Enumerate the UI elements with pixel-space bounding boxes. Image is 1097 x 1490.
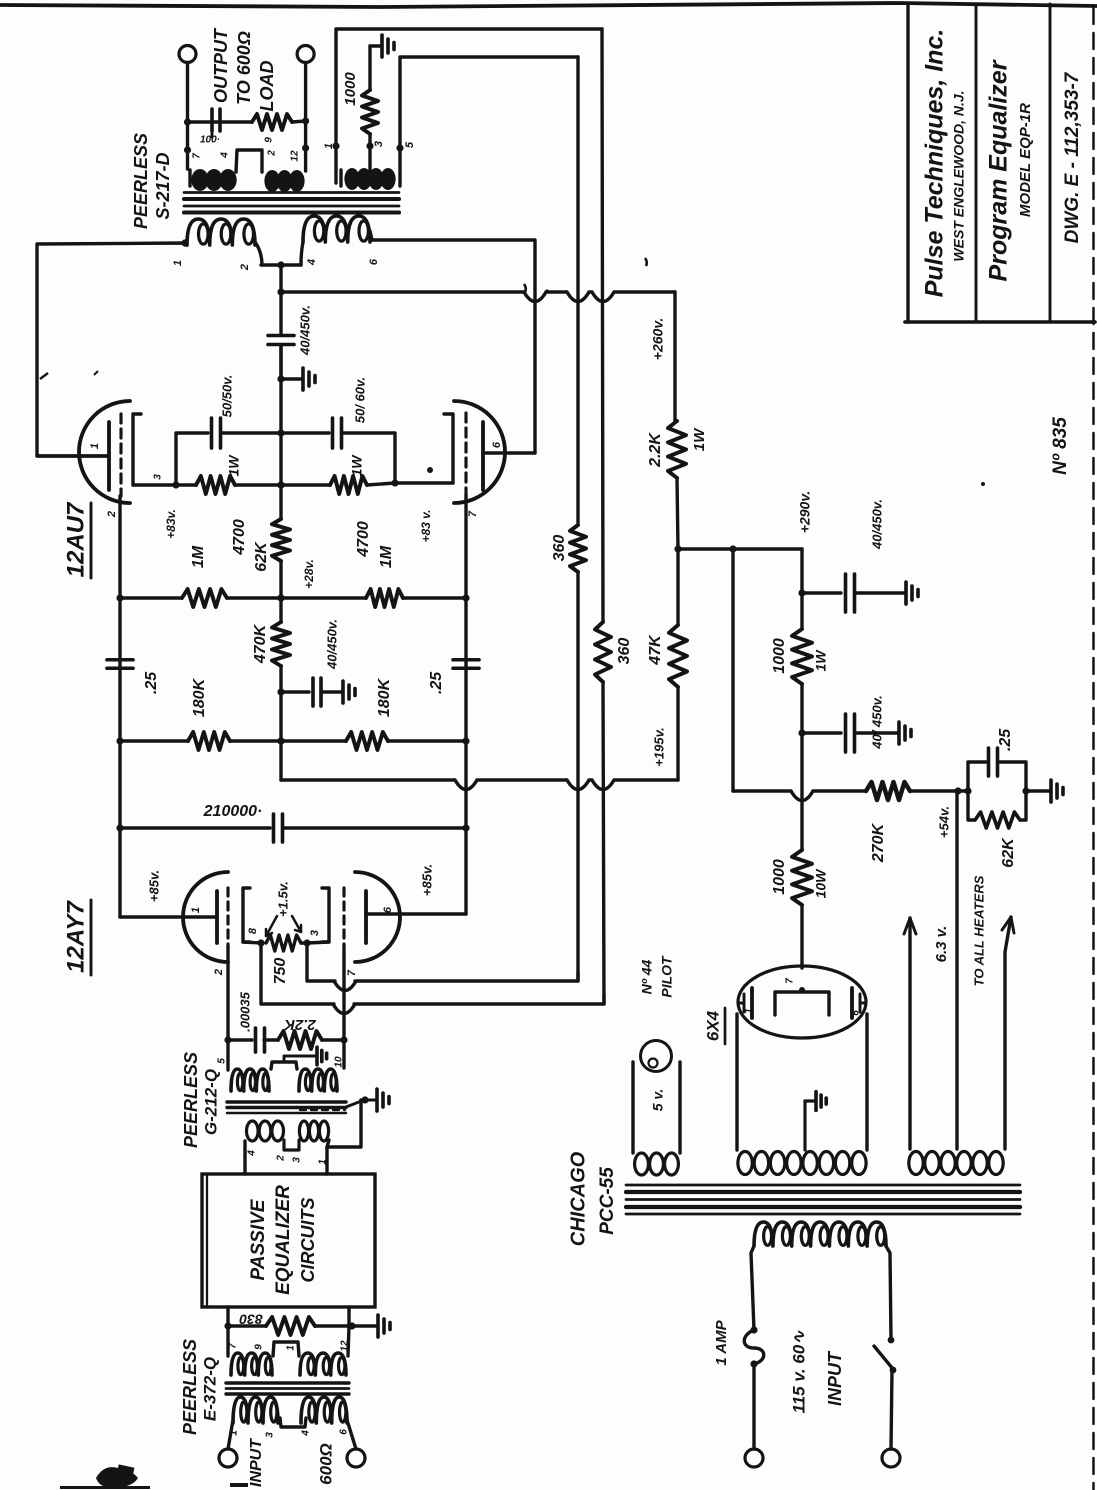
label 1000 (342, 72, 359, 106)
pin 12 t3 (340, 1340, 351, 1352)
pin 6 au7 (491, 441, 503, 448)
pin 1 g212 (318, 1159, 329, 1165)
svg-text:2: 2 (106, 511, 118, 518)
label +195v (651, 727, 666, 766)
svg-text:1 AMP: 1 AMP (713, 1319, 730, 1365)
stray marks (40, 258, 985, 486)
capacitor 210000 (274, 814, 283, 842)
label +54v (936, 806, 951, 838)
pin 1 ay7 (190, 907, 202, 913)
svg-text:G-212-Q: G-212-Q (201, 1069, 220, 1135)
pin 5 tert (404, 141, 416, 148)
wire row2 (116, 594, 469, 601)
title text PULSE TECHNIQUES, INC. (921, 29, 949, 298)
note No 835 (1050, 417, 1071, 475)
svg-text:DWG. E - 112,353-7: DWG. E - 112,353-7 (1062, 71, 1083, 243)
label 115v 60 (789, 1330, 808, 1414)
svg-text:2: 2 (239, 264, 251, 271)
pin 7 (192, 153, 203, 159)
wire t3 pri link (280, 1418, 306, 1427)
svg-text:PEERLESS: PEERLESS (131, 133, 151, 229)
svg-text:+260v.: +260v. (650, 318, 666, 360)
wire switch top (886, 1246, 894, 1343)
svg-text:7: 7 (785, 978, 796, 984)
label .00035 (237, 991, 252, 1032)
svg-text:10W: 10W (813, 868, 829, 899)
svg-text:1W: 1W (691, 427, 708, 451)
tube 12AY7 right triode (322, 872, 400, 962)
resistor 2.2K (668, 421, 686, 478)
wire primary1 left to left rail (37, 239, 189, 456)
transformer T4 laminations (626, 1185, 1020, 1214)
wire 47K top (676, 549, 679, 625)
svg-text:CIRCUITS: CIRCUITS (298, 1198, 318, 1283)
svg-text:PCC-55: PCC-55 (597, 1167, 618, 1235)
title text PROGRAM EQUALIZER (985, 59, 1013, 281)
wire 360a lower (576, 572, 579, 981)
tube 12AY7 left triode (183, 872, 250, 962)
label .25 c (997, 728, 1014, 751)
wire left rail (116, 496, 123, 917)
capacitor C 40/450 a (802, 574, 905, 612)
transformer T2 primary right (299, 1069, 337, 1091)
pin 2 label (239, 264, 251, 271)
pin 9 (264, 137, 275, 143)
label INPUT in (248, 1438, 265, 1487)
label 830 (239, 1311, 263, 1327)
svg-text:3: 3 (373, 141, 385, 147)
svg-text:750: 750 (272, 958, 289, 985)
svg-text:1: 1 (286, 1345, 297, 1351)
svg-text:1000: 1000 (771, 638, 788, 674)
svg-text:2: 2 (213, 969, 225, 976)
svg-text:.25: .25 (143, 671, 160, 694)
label 2.2K b (283, 1016, 317, 1033)
pilot lamp (641, 1041, 672, 1072)
pin 4 label (306, 259, 318, 266)
label .25 left (143, 671, 160, 694)
transformer T3 secondary right (300, 1353, 346, 1375)
svg-text:1W: 1W (226, 454, 242, 477)
transformer T2 secondary right (299, 1121, 328, 1141)
label +85v right (419, 864, 434, 896)
pin 3 ay7 (309, 930, 321, 936)
wire ay7 plate right (366, 912, 466, 915)
label +1.5v (275, 881, 290, 917)
wire bias row (733, 791, 866, 801)
terminal 115 R (882, 1449, 900, 1467)
svg-text:1000: 1000 (771, 859, 788, 895)
pin 3 tert (373, 141, 385, 147)
capacitor 50/60 right (281, 418, 395, 483)
wire ay7 plate left (120, 915, 215, 918)
label 40/450v b (869, 695, 884, 750)
svg-text:CHICAGO: CHICAGO (567, 1151, 589, 1246)
svg-text:6: 6 (851, 1010, 862, 1016)
svg-text:12AU7: 12AU7 (62, 501, 89, 577)
label 50/50v (219, 375, 234, 418)
wire rectifier feed (800, 905, 803, 968)
svg-text:2: 2 (267, 150, 278, 157)
wire grid7 down (340, 946, 347, 1068)
resistor R 1000 tertiary (362, 46, 378, 171)
label 12AU7 (62, 501, 91, 578)
label 1M left (190, 545, 207, 568)
svg-text:4700: 4700 (355, 521, 372, 558)
wire plate left (37, 454, 109, 457)
wire t3 sec link (273, 1342, 299, 1356)
wire sec left to box (243, 1141, 246, 1174)
wire to cap b (798, 684, 805, 737)
svg-text:Program Equalizer: Program Equalizer (985, 59, 1013, 281)
resistor 62K (272, 519, 290, 561)
label PEERLESS S-217-D (131, 133, 173, 229)
svg-text:6: 6 (491, 441, 503, 448)
wire winding2 pin6 hook (370, 231, 372, 240)
wire +260 drop (673, 292, 676, 421)
svg-text:470K: 470K (252, 623, 269, 664)
label CIRCUITS (298, 1198, 318, 1283)
label 12AY7 (62, 900, 91, 975)
label 600 ohm (316, 1443, 335, 1485)
svg-text:TO 600Ω: TO 600Ω (234, 31, 254, 105)
pin 7 6x4 (785, 978, 796, 984)
svg-text:1000: 1000 (342, 72, 359, 106)
wire cathode row (133, 479, 453, 488)
wire g212 left (226, 1040, 229, 1070)
label +85v left (146, 870, 161, 902)
pin 2 ay7 (213, 969, 225, 976)
wire 6x4 plate leads (737, 1014, 867, 1150)
fuse 1A (744, 1330, 764, 1368)
svg-text:6X4: 6X4 (703, 1010, 722, 1041)
pin 1 au7 (89, 443, 101, 449)
svg-text:1: 1 (89, 443, 101, 449)
transformer T2 laminations (227, 1102, 346, 1113)
svg-text:1: 1 (190, 907, 202, 913)
transformer T1 secondary winding B (265, 171, 303, 191)
ground cap b (899, 722, 911, 744)
svg-text:.00035: .00035 (237, 991, 252, 1032)
pin 1 6x4 (744, 1008, 755, 1014)
label 6.3v (933, 926, 950, 963)
svg-text:6: 6 (382, 906, 394, 913)
transformer T1 tertiary winding (341, 169, 395, 189)
label 40/450v top (297, 305, 312, 356)
svg-text:180K: 180K (376, 677, 393, 717)
ground cap a (906, 582, 918, 604)
resistor 4700 left (196, 476, 235, 494)
svg-text:5: 5 (404, 141, 416, 148)
svg-text:E-372-Q: E-372-Q (200, 1357, 219, 1421)
transformer T3 primary right (301, 1397, 347, 1423)
capacitor .25 right (453, 660, 479, 669)
pin 1 tert (323, 143, 335, 149)
wire secondary link (236, 150, 262, 172)
svg-text:5 v.: 5 v. (650, 1089, 666, 1112)
svg-text:INPUT: INPUT (825, 1350, 845, 1406)
svg-text:40/450v.: 40/450v. (324, 619, 339, 670)
paper right dashed border (1092, 8, 1094, 1490)
svg-text:600Ω: 600Ω (316, 1443, 335, 1485)
terminal 115 L (745, 1449, 763, 1467)
svg-text:+85v.: +85v. (419, 864, 434, 896)
label PEERLESS G-212-Q (181, 1052, 221, 1148)
wire row3 (116, 737, 469, 744)
svg-text:6.3 v.: 6.3 v. (933, 926, 950, 963)
svg-text:Nº 835: Nº 835 (1050, 417, 1071, 475)
svg-text:5: 5 (217, 1058, 228, 1064)
svg-text:INPUT: INPUT (248, 1438, 265, 1487)
wire to-all-heaters arrow (1002, 917, 1014, 1149)
svg-text:+85v.: +85v. (146, 870, 161, 902)
svg-text:9: 9 (264, 137, 275, 143)
svg-text:WEST ENGLEWOOD, N.J.: WEST ENGLEWOOD, N.J. (951, 90, 967, 261)
label 470K (252, 623, 269, 664)
svg-text:1W: 1W (349, 454, 365, 477)
wire g212 ct (271, 1056, 315, 1069)
wire right rail (462, 495, 469, 914)
wire fuse top (750, 1246, 757, 1334)
label 40/450v mid (324, 619, 339, 670)
svg-text:1M: 1M (378, 545, 395, 568)
pin 2 (267, 150, 278, 157)
arrow 1.5 left (266, 916, 277, 936)
svg-text:1: 1 (172, 260, 184, 266)
resistor 4700 right (330, 476, 367, 494)
label 750 (272, 958, 289, 985)
scan blob (60, 1464, 248, 1489)
svg-text:+83 v.: +83 v. (419, 509, 433, 542)
wire 6.3 arrow (904, 918, 916, 1149)
wire secondary right (302, 121, 309, 171)
svg-text:1: 1 (744, 1008, 755, 1014)
svg-text:OUTPUT: OUTPUT (211, 27, 231, 103)
transformer T4 primary (754, 1222, 886, 1246)
transformer T4 winding 6.3v (909, 1152, 1003, 1175)
svg-text:115 v. 60∿: 115 v. 60∿ (789, 1330, 808, 1414)
svg-text:+83v.: +83v. (164, 509, 178, 539)
pin 8 ay7 (247, 927, 259, 934)
svg-text:Nº 44: Nº 44 (639, 959, 655, 994)
transformer T1 primary winding 2 (303, 216, 370, 242)
svg-text:4: 4 (247, 1150, 258, 1157)
resistor 270K (866, 782, 910, 800)
resistor 470K (272, 622, 290, 666)
svg-text:7: 7 (467, 510, 479, 517)
pin 4 g212 (247, 1150, 258, 1157)
svg-text:6: 6 (368, 258, 380, 265)
label 47K (647, 634, 664, 666)
capacitor C 40/450 mid (281, 678, 341, 706)
pin 7 au7 (467, 510, 479, 517)
pin 3 au7 (153, 474, 164, 480)
pin 6 ay7 (382, 906, 394, 913)
svg-text:7: 7 (346, 969, 358, 976)
transformer T4 winding 6X4 heater (738, 1152, 866, 1175)
title text MODEL EQP-1R (1017, 103, 1034, 217)
label +260v (650, 318, 666, 360)
pin 7 ay7 (346, 969, 358, 976)
svg-text:7: 7 (192, 153, 203, 159)
label 1W a (691, 427, 708, 451)
svg-text:+54v.: +54v. (936, 806, 951, 838)
svg-text:62K: 62K (1000, 837, 1017, 868)
svg-text:PASSIVE: PASSIVE (248, 1198, 269, 1280)
transformer T1 primary winding 1 (185, 219, 255, 245)
svg-text:4: 4 (220, 152, 231, 159)
svg-text:9: 9 (254, 1344, 265, 1350)
label 180K right (376, 677, 393, 717)
wire B+ row y292 (281, 292, 675, 302)
svg-text:12: 12 (340, 1340, 351, 1352)
svg-text:10: 10 (334, 1056, 345, 1068)
label +290v (797, 491, 813, 533)
svg-text:+1.5v.: +1.5v. (275, 881, 290, 917)
wire row4 right (283, 826, 466, 829)
label PASSIVE (248, 1198, 269, 1280)
label PEERLESS E-372-Q (180, 1339, 220, 1435)
wire box to 830 right (347, 1307, 350, 1326)
resistor 830 (228, 1317, 356, 1335)
pin 6 label (368, 258, 380, 265)
ground tertiary (370, 35, 394, 57)
wire row4 left (120, 826, 270, 829)
svg-text:.25: .25 (428, 671, 445, 694)
svg-text:2: 2 (276, 1155, 287, 1162)
title text WEST ENGLEWOOD, N.J. (951, 90, 967, 261)
label No44 PILOT (639, 955, 675, 998)
label TO ALL HEATERS (971, 875, 986, 986)
label 1W left (226, 454, 242, 477)
wire tertiary pin5 loop (396, 57, 578, 186)
resistor 2.2K b (278, 1031, 344, 1049)
svg-text:+28v.: +28v. (302, 559, 316, 589)
svg-text:S-217-D: S-217-D (153, 152, 173, 219)
wire sec right node (327, 1100, 361, 1174)
label 40/450v a (869, 499, 884, 550)
label EQUALIZER (273, 1185, 294, 1295)
wire bias drop (731, 549, 734, 791)
ground 6x4 ct (816, 1092, 826, 1111)
svg-text:40/450v.: 40/450v. (869, 499, 884, 550)
wire +290 row (678, 545, 802, 552)
svg-text:3: 3 (265, 1432, 276, 1438)
wire feedback A (307, 943, 578, 991)
wire bus mid (277, 345, 284, 519)
svg-text:6: 6 (339, 1429, 350, 1435)
label 1W right (349, 454, 365, 477)
pin 2 g212 (276, 1155, 287, 1162)
wire grid2 down (224, 946, 231, 1044)
input terminal L (219, 1420, 237, 1467)
label +83v left (164, 509, 178, 539)
wire +195 row y780 (281, 780, 678, 790)
transformer T3 secondary left (231, 1353, 272, 1375)
label 1000 b (771, 859, 788, 895)
label INPUT mains (825, 1350, 845, 1406)
ground RC (1026, 780, 1063, 802)
svg-text:3: 3 (309, 930, 321, 936)
pin 4 (220, 152, 231, 159)
wire heater ct (955, 791, 958, 1149)
ground 830 (352, 1315, 390, 1337)
transformer T2 primary left (231, 1069, 269, 1091)
svg-text:40/ 450v.: 40/ 450v. (869, 695, 884, 750)
wire bus 560-622 (277, 561, 284, 622)
svg-text:1W: 1W (813, 649, 829, 672)
wire feedback B (261, 943, 604, 1014)
box passive equalizer (202, 1174, 375, 1307)
label 180K left (191, 677, 208, 717)
ground g212 ct (317, 1047, 327, 1065)
label 4700 right (355, 521, 372, 558)
resistor 180K left (188, 732, 230, 750)
transformer T3 primary left (233, 1397, 278, 1423)
ground bus cap (277, 368, 315, 390)
wire 1000b top (800, 733, 803, 850)
wire 2.2K to junction (674, 478, 681, 553)
capacitor .00035 (228, 1028, 278, 1052)
svg-text:4700: 4700 (231, 519, 248, 556)
svg-text:270K: 270K (870, 822, 887, 863)
label 10W (813, 868, 829, 899)
svg-text:100·: 100· (200, 135, 220, 146)
pin 6 6x4 (851, 1010, 862, 1016)
pin 3 t3p (265, 1432, 276, 1438)
transformer T4 winding 5v (635, 1153, 679, 1175)
tube 6X4 internals (739, 987, 866, 1018)
wire g212 sec link (284, 1140, 299, 1150)
label 270K (870, 822, 887, 863)
wire bus low (277, 666, 284, 780)
svg-text:3: 3 (292, 1157, 303, 1163)
label +83v right (419, 509, 433, 542)
output terminal J2 (297, 46, 314, 122)
label 50/60v (352, 377, 367, 423)
capacitor C 40/450 b (802, 714, 898, 752)
svg-text:830: 830 (239, 1311, 263, 1327)
svg-text:LOAD: LOAD (257, 61, 277, 112)
label 210000 (203, 803, 263, 820)
svg-text:2.2K: 2.2K (283, 1016, 317, 1033)
wire 47K bottom to +195 row (676, 687, 679, 780)
svg-text:1: 1 (323, 143, 335, 149)
wire secondary left (184, 122, 191, 169)
wire 6x4 ct ground (805, 1101, 815, 1150)
label 1000 a (771, 638, 788, 674)
svg-text:12AY7: 12AY7 (62, 900, 89, 973)
svg-text:7: 7 (228, 1343, 239, 1349)
label 5v (650, 1089, 666, 1112)
svg-text:Pulse Techniques, Inc.: Pulse Techniques, Inc. (921, 29, 949, 298)
wire 360b lower (603, 682, 604, 1004)
svg-text:.25: .25 (997, 728, 1014, 751)
tube 12AU7 right triode (444, 401, 505, 503)
ground g212 shield (377, 1089, 389, 1111)
label 62K (253, 541, 270, 572)
svg-text:12: 12 (290, 150, 301, 162)
label 1W b (813, 649, 829, 672)
label .25 right (428, 671, 445, 694)
svg-text:TO ALL HEATERS: TO ALL HEATERS (971, 875, 986, 986)
input terminal R (347, 1420, 365, 1467)
wire box to 830 left (224, 1307, 231, 1330)
wire +290 down (798, 549, 805, 597)
pin 3 g212 (292, 1157, 303, 1163)
svg-text:360: 360 (551, 535, 568, 562)
wire plate right (372, 240, 535, 453)
